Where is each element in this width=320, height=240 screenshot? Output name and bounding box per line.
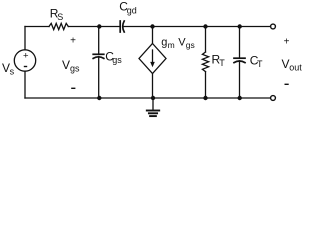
label RS: [50, 7, 63, 23]
label Vgs: [62, 58, 80, 74]
terminal top right: [271, 24, 276, 29]
wire top rail left segment: [25, 26, 49, 28]
capacitor C3 CT lead lower: [239, 61, 241, 98]
node junction dots top rail: [97, 24, 101, 28]
dependent source G1 stem upper: [152, 27, 154, 44]
label RT: [212, 53, 226, 69]
capacitor C3 CT plates: [234, 57, 245, 59]
svg-text:s: s: [10, 67, 15, 77]
label Vgs polarity minus: [71, 87, 75, 89]
capacitor C2 Cgs lead lower: [98, 57, 100, 99]
wire left rail upper: [24, 27, 26, 50]
svg-text:gs: gs: [70, 64, 80, 74]
wire bottom rail: [25, 97, 271, 99]
terminal bottom right: [271, 96, 276, 101]
resistor R2 RT zigzag: [202, 52, 208, 72]
svg-text:T: T: [219, 58, 225, 68]
svg-text:gs: gs: [186, 40, 195, 50]
ground stub: [152, 98, 154, 110]
label CT: [250, 54, 263, 69]
svg-text:gs: gs: [112, 55, 122, 65]
svg-text:g: g: [161, 37, 167, 49]
dependent source G1 diamond: [139, 44, 166, 74]
svg-text:+: +: [284, 36, 290, 47]
ground bars: [147, 110, 159, 112]
label Cgs: [105, 50, 122, 66]
label gm Vgs: [161, 37, 195, 50]
svg-text:S: S: [57, 12, 63, 22]
label Vs: [2, 61, 15, 77]
resistor R1 RS zigzag: [49, 23, 68, 29]
wire top rail middle segment: [68, 26, 120, 28]
label Vout: [282, 57, 303, 72]
svg-text:out: out: [289, 63, 302, 73]
svg-text:+: +: [70, 36, 76, 47]
node junction dots bottom rail: [97, 96, 101, 100]
svg-text:gd: gd: [127, 5, 137, 15]
capacitor C1 Cgd plates: [119, 21, 121, 32]
capacitor C3 CT lead upper: [239, 27, 241, 59]
wire left rail lower: [24, 71, 26, 98]
label Cgd: [119, 0, 137, 15]
label Vout polarity minus: [285, 83, 289, 85]
resistor R2 RT lead lower: [205, 72, 207, 98]
capacitor C2 Cgs plates: [93, 53, 104, 55]
voltage source V1 Vs circle: [14, 50, 35, 71]
svg-text:+: +: [23, 51, 29, 62]
svg-text:T: T: [257, 59, 263, 69]
svg-text:m: m: [168, 40, 175, 50]
voltage source V1 polarity marks: [23, 51, 29, 62]
dependent source G1 stem lower: [152, 74, 154, 99]
wire top rail after Cgd: [123, 26, 270, 28]
dependent source G1 arrow: [152, 50, 154, 63]
capacitor C2 Cgs lead upper: [98, 27, 100, 55]
svg-text:V: V: [62, 58, 70, 72]
resistor R2 RT lead upper: [205, 27, 207, 53]
